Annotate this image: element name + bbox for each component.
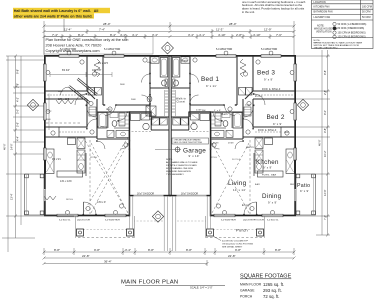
svg-text:other walls are 2x4 walls 8' P: other walls are 2x4 walls 8' Plate on th… — [14, 15, 93, 19]
svg-text:28'-0": 28'-0" — [229, 22, 237, 26]
svg-text:in the unit.: in the unit. — [242, 10, 255, 14]
svg-text:9'-8": 9'-8" — [235, 248, 241, 252]
top dim texts — [52, 22, 282, 37]
svg-text:10'-2": 10'-2" — [323, 150, 327, 157]
svg-text:KITCHEN FAN: KITCHEN FAN — [314, 5, 330, 8]
svg-text:2868: 2868 — [228, 143, 234, 145]
svg-text:Living: Living — [228, 180, 247, 187]
svg-text:3'-4": 3'-4" — [188, 33, 194, 37]
svg-text:PORCH: PORCH — [240, 295, 253, 299]
svg-text:(2)2-8 DOOR: (2)2-8 DOOR — [77, 220, 90, 222]
right rotated dim texts — [318, 70, 328, 220]
svg-text:4'-10": 4'-10" — [253, 33, 261, 37]
svg-text:ALL SHARED WALLS TO HAVE: ALL SHARED WALLS TO HAVE — [166, 161, 198, 164]
right diamond tag — [297, 99, 308, 110]
svg-text:WH: WH — [202, 110, 206, 112]
garage note box — [172, 138, 209, 144]
svg-text:Bath: Bath — [222, 112, 229, 116]
svg-text:FURN. BAR: FURN. BAR — [262, 174, 277, 177]
top dimension line level 3 — [44, 34, 294, 39]
svg-text:5' x 5'1/8: 5' x 5'1/8 — [97, 126, 107, 129]
svg-text:9' x 9': 9' x 9' — [268, 201, 277, 205]
svg-text:RC-1 CHANNEL ONE SIDE: RC-1 CHANNEL ONE SIDE — [166, 167, 194, 170]
svg-text:80 CFM (3 BEDROOMS): 80 CFM (3 BEDROOMS) — [338, 27, 365, 30]
svg-text:12'-9": 12'-9" — [264, 28, 272, 32]
dimension slash ticks — [14, 25, 329, 266]
license text block — [46, 38, 129, 53]
svg-text:Bed 1: Bed 1 — [201, 76, 219, 83]
svg-text:9'-0": 9'-0" — [323, 110, 327, 115]
svg-text:14'1 x 14'9: 14'1 x 14'9 — [60, 180, 72, 183]
bottom dimension lines — [44, 248, 294, 266]
svg-text:ROD & SHELF: ROD & SHELF — [258, 130, 277, 132]
svg-text:NOTE:: NOTE: — [314, 40, 321, 42]
svg-text:9' x 9': 9' x 9' — [273, 122, 282, 126]
svg-text:2468: 2468 — [284, 132, 289, 134]
svg-text:MAIN FLOOR: MAIN FLOOR — [240, 283, 262, 287]
svg-text:REF: REF — [290, 184, 295, 186]
svg-text:Bath: Bath — [182, 59, 189, 63]
svg-text:4'-1": 4'-1" — [199, 33, 205, 37]
svg-text:MAIN FLOOR PLAN: MAIN FLOOR PLAN — [121, 280, 178, 286]
left diamond tag — [27, 99, 38, 110]
svg-text:50 CFM: 50 CFM — [362, 16, 371, 19]
svg-text:1 HR AIR SPACE AT SHARED: 1 HR AIR SPACE AT SHARED — [174, 139, 202, 142]
svg-text:100 CFM (4 BEDROOMS): 100 CFM (4 BEDROOMS) — [338, 31, 366, 34]
left dimension lines — [2, 56, 74, 252]
svg-text:SCALE: 1/4" = 1'-0": SCALE: 1/4" = 1'-0" — [190, 286, 213, 290]
svg-text:9' x 9': 9' x 9' — [300, 189, 309, 193]
svg-text:12'CLG: 12'CLG — [210, 157, 217, 159]
left unit (mirrored copy) — [25, 51, 172, 251]
svg-text:PANTRY: PANTRY — [246, 146, 255, 149]
svg-text:LOCATION: LOCATION — [314, 1, 326, 4]
svg-text:3'-4": 3'-4" — [125, 248, 131, 252]
svg-text:LAUNDRY FAN: LAUNDRY FAN — [314, 16, 331, 19]
svg-text:72 sq. ft.: 72 sq. ft. — [263, 294, 279, 299]
garage circle-plus icon — [174, 146, 181, 153]
left unit top-left room dim line — [47, 72, 113, 130]
svg-text:50 CFM (1-2 BEDROOMS): 50 CFM (1-2 BEDROOMS) — [338, 23, 367, 26]
svg-text:36'-4": 36'-4" — [104, 260, 112, 264]
svg-text:50 CFM: 50 CFM — [362, 11, 371, 14]
svg-text:4x4 WOOD COLUMN TYP: 4x4 WOOD COLUMN TYP — [222, 241, 249, 243]
svg-text:13'-4": 13'-4" — [10, 193, 14, 200]
svg-text:ROD & SHELF: ROD & SHELF — [262, 89, 281, 91]
svg-text:28'-0": 28'-0" — [103, 22, 111, 26]
svg-text:9' x 9': 9' x 9' — [264, 78, 273, 82]
left unit diagonal hall walls — [69, 78, 98, 104]
svg-text:(2)2-8 ENTRY DOOR: (2)2-8 ENTRY DOOR — [243, 220, 264, 222]
svg-text:16'x7 OH DOOR: 16'x7 OH DOOR — [181, 194, 198, 196]
svg-text:SQUARE FOOTAGE: SQUARE FOOTAGE — [240, 274, 292, 280]
svg-text:3'-8": 3'-8" — [323, 128, 327, 133]
svg-text:2868: 2868 — [106, 109, 111, 111]
svg-text:SEE DETAIL SHEET: SEE DETAIL SHEET — [222, 246, 243, 249]
left unit interior dim texts — [52, 62, 109, 204]
svg-text:Plan license for ONE construct: Plan license for ONE construction only a… — [46, 38, 129, 42]
svg-text:SELF CLOSER TIGHT FITTING: SELF CLOSER TIGHT FITTING — [174, 142, 203, 144]
svg-text:40'-0": 40'-0" — [3, 143, 7, 150]
svg-text:5-0 WDW HDR: 5-0 WDW HDR — [261, 48, 277, 51]
svg-text:5/8 TYPE-X SHEETROCK AND: 5/8 TYPE-X SHEETROCK AND — [166, 164, 197, 167]
svg-text:22'-8": 22'-8" — [228, 254, 236, 258]
diamond tag top center — [162, 42, 174, 54]
svg-text:5040: 5040 — [46, 119, 51, 121]
svg-text:9' x 19': 9' x 19' — [189, 154, 200, 158]
left unit dashed header line — [46, 122, 82, 124]
top-right fan schedule table — [312, 0, 374, 49]
svg-text:8'-8": 8'-8" — [54, 248, 60, 252]
svg-text:BAR: BAR — [255, 183, 260, 186]
yellow highlight note — [13, 8, 110, 13]
svg-text:3'-0": 3'-0" — [16, 109, 20, 114]
svg-text:9' x 11': 9' x 11' — [206, 84, 217, 88]
svg-text:1265 sq. ft.: 1265 sq. ft. — [263, 282, 284, 287]
svg-text:Entry: Entry — [242, 203, 250, 207]
svg-text:293 sq. ft.: 293 sq. ft. — [263, 288, 282, 293]
svg-text:3-0 WDW HDR: 3-0 WDW HDR — [105, 220, 120, 222]
svg-text:208 Hoover Lane Azle, TX 76020: 208 Hoover Lane Azle, TX 76020 — [46, 44, 102, 48]
svg-text:5-0 WDW HDR: 5-0 WDW HDR — [104, 48, 120, 51]
right unit — [169, 51, 316, 251]
garage door labels — [137, 194, 198, 196]
center driveway diamond tag — [152, 211, 163, 222]
room labels right unit — [176, 59, 310, 233]
svg-text:40'-0": 40'-0" — [318, 139, 322, 146]
top dimension line level 2 — [44, 29, 294, 34]
left unit hall bath toilet — [147, 96, 152, 102]
svg-text:5-0 WDW HDR: 5-0 WDW HDR — [216, 48, 232, 51]
svg-text:W/ SOUND INSULATION: W/ SOUND INSULATION — [166, 170, 191, 173]
svg-text:8'-8": 8'-8" — [275, 248, 281, 252]
svg-text:9'0 x 9'1: 9'0 x 9'1 — [52, 158, 61, 161]
left unit diagonal hall door arc — [61, 87, 69, 95]
svg-text:4'-2": 4'-2" — [16, 97, 20, 102]
window header labels top — [60, 48, 277, 51]
garage leader line — [155, 149, 174, 151]
left unit closet squiggles — [56, 100, 74, 104]
svg-text:16'x7 OH DOOR: 16'x7 OH DOOR — [137, 194, 154, 196]
svg-text:2468: 2468 — [120, 84, 125, 86]
svg-text:5' x 8': 5' x 8' — [214, 110, 222, 112]
svg-text:3-0 WDW HDR: 3-0 WDW HDR — [221, 220, 236, 222]
svg-text:Bed 2: Bed 2 — [267, 114, 285, 121]
svg-text:16'CLG: 16'CLG — [66, 199, 73, 201]
svg-text:2'-8": 2'-8" — [236, 33, 242, 37]
svg-text:Dining: Dining — [262, 193, 282, 200]
svg-text:13'0 x 9': 13'0 x 9' — [97, 201, 106, 204]
svg-text:6'8 CLG: 6'8 CLG — [255, 96, 263, 98]
svg-text:Copyright www.houseplans.com: Copyright www.houseplans.com — [46, 49, 100, 53]
svg-text:4'-4": 4'-4" — [16, 136, 20, 141]
svg-text:12'1 x 11'5: 12'1 x 11'5 — [58, 98, 70, 101]
left unit wide living X dashes — [83, 137, 128, 213]
svg-text:NOTE:: NOTE: — [166, 159, 173, 161]
svg-text:100 CFM: 100 CFM — [362, 5, 372, 8]
svg-text:9' x 9': 9' x 9' — [263, 166, 272, 170]
porch note with leader — [222, 241, 253, 249]
svg-text:BATHROOM FAN: BATHROOM FAN — [314, 11, 333, 14]
svg-text:2068: 2068 — [131, 99, 136, 101]
svg-text:9'-8": 9'-8" — [94, 248, 100, 252]
svg-text:11'-3": 11'-3" — [216, 28, 223, 32]
svg-text:8'0 3/4": 8'0 3/4" — [62, 69, 70, 72]
left rotated dim texts — [3, 69, 20, 200]
svg-text:10'1 7/8": 10'1 7/8" — [92, 69, 101, 72]
leader line from note — [63, 19, 65, 32]
left unit hall bath shower — [146, 106, 156, 116]
svg-text:FAU: FAU — [192, 121, 196, 124]
svg-text:9'-8": 9'-8" — [323, 70, 327, 75]
top dimension line level 1 — [44, 21, 294, 55]
svg-text:4'-10": 4'-10" — [218, 33, 226, 37]
svg-text:2068: 2068 — [245, 105, 251, 107]
top-center tiny paragraph — [242, 0, 306, 14]
svg-text:Bed 3: Bed 3 — [257, 70, 275, 77]
bottom wall window labels right unit — [59, 220, 279, 222]
svg-text:8'-8": 8'-8" — [186, 248, 192, 252]
svg-text:9'1 x 11'5: 9'1 x 11'5 — [98, 62, 109, 65]
svg-text:12'-9": 12'-9" — [323, 189, 327, 196]
svg-text:Closet: Closet — [177, 101, 186, 104]
right dimension lines — [296, 50, 330, 235]
svg-text:GARAGE: GARAGE — [240, 289, 255, 293]
svg-text:ON 24x24x12 CONC FOOTING: ON 24x24x12 CONC FOOTING — [222, 244, 253, 246]
garage NOTE block — [166, 159, 198, 176]
svg-text:VENTILATION: VENTILATION — [316, 31, 332, 34]
svg-text:5-0 SLD GL: 5-0 SLD GL — [267, 220, 279, 222]
svg-text:11'-4": 11'-4" — [64, 28, 71, 32]
svg-text:5-0 SLD GL: 5-0 SLD GL — [59, 220, 71, 222]
svg-text:22'-8": 22'-8" — [82, 254, 90, 258]
svg-text:TYPE ASSEMBLY: TYPE ASSEMBLY — [166, 173, 184, 176]
svg-text:W/D: W/D — [150, 119, 154, 121]
svg-text:9'-8": 9'-8" — [16, 69, 20, 74]
svg-text:THE AIR CHANGE REQ.: THE AIR CHANGE REQ. — [314, 47, 339, 50]
svg-text:12'CLG: 12'CLG — [90, 157, 97, 159]
svg-text:14'-0": 14'-0" — [10, 143, 14, 150]
radio buttons — [333, 22, 336, 38]
svg-text:5'-6": 5'-6" — [16, 122, 20, 127]
svg-text:7'-6": 7'-6" — [276, 33, 282, 37]
party wall (double line) — [169, 55, 170, 196]
svg-text:7'-4": 7'-4" — [99, 28, 105, 32]
svg-text:Porch: Porch — [236, 228, 248, 233]
svg-text:8'-8": 8'-8" — [148, 248, 154, 252]
scattered schedule tiny texts — [46, 62, 295, 201]
svg-text:2'-8": 2'-8" — [16, 83, 20, 88]
svg-text:3068: 3068 — [213, 143, 219, 145]
svg-text:Hall Bath shared wall with Lau: Hall Bath shared wall with Laundry is 6"… — [14, 9, 99, 13]
svg-text:120 CFM (5 BEDROOMS): 120 CFM (5 BEDROOMS) — [338, 36, 366, 39]
svg-text:14' x 14': 14' x 14' — [233, 188, 246, 192]
svg-text:16'CLG: 16'CLG — [232, 159, 241, 161]
